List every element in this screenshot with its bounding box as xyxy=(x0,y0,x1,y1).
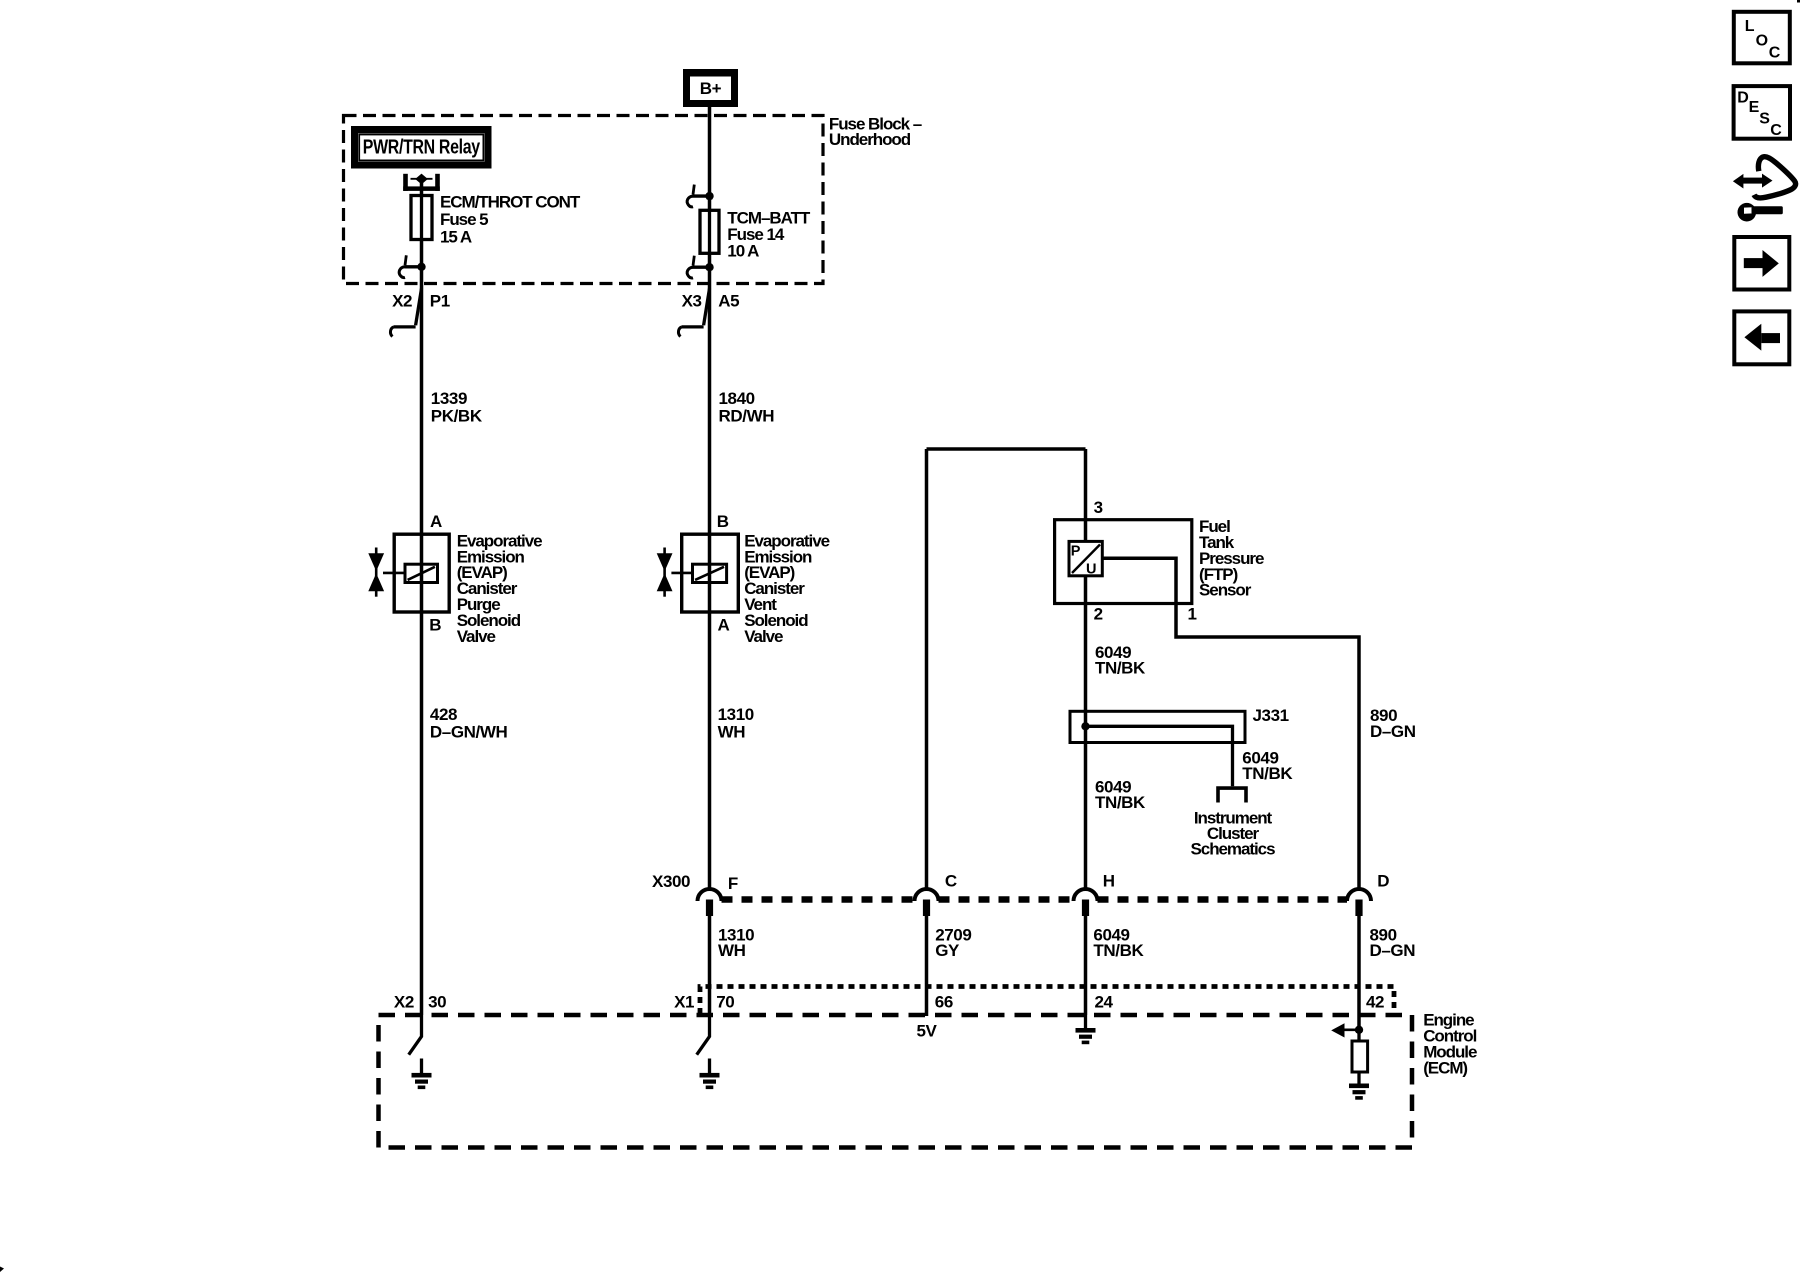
svg-text:D: D xyxy=(1377,872,1389,891)
nav icon back arrow box xyxy=(1734,311,1789,364)
svg-text:O: O xyxy=(1756,32,1768,49)
svg-text:PK/BK: PK/BK xyxy=(431,406,483,425)
wire: FTP pin 3 drop xyxy=(1084,449,1088,541)
resistor inside ECM at pin 42 xyxy=(1357,1030,1360,1041)
fuse F14 TCM-BATT 10A xyxy=(700,210,719,253)
wire: Fuse 5 through EVAP purge solenoid to ECM pin 30 xyxy=(420,240,424,1016)
svg-text:1310: 1310 xyxy=(718,705,754,724)
svg-text:D–GN/WH: D–GN/WH xyxy=(430,722,508,741)
solenoid: EVAP canister purge valve xyxy=(394,534,449,612)
svg-text:ECM/THROT CONT: ECM/THROT CONT xyxy=(440,192,581,211)
ECM pin 30 contact slant xyxy=(409,1015,422,1055)
ground at ECM pin 70 xyxy=(708,1059,711,1074)
wire: Fuse 14 through EVAP vent solenoid to X300 F xyxy=(708,253,712,889)
wire: 5V loop top xyxy=(927,447,1086,451)
svg-text:TN/BK: TN/BK xyxy=(1242,764,1293,783)
svg-text:A: A xyxy=(718,616,730,635)
page corner marks xyxy=(0,1267,4,1273)
svg-text:X300: X300 xyxy=(652,872,690,891)
off-page bracket to instrument cluster xyxy=(1218,788,1246,802)
svg-text:X2: X2 xyxy=(394,992,414,1011)
female connector above Fuse 14 xyxy=(705,192,713,200)
svg-text:H: H xyxy=(1103,872,1115,891)
svg-text:D: D xyxy=(1737,90,1748,107)
male connector half below X2 P1 xyxy=(416,289,422,326)
pressure transducer P/U symbol xyxy=(1069,541,1102,575)
nav icon: repair instructions (arrows + wrench) xyxy=(1741,178,1763,184)
fuse block underhood dashed box xyxy=(344,116,824,284)
svg-text:5V: 5V xyxy=(917,1021,938,1040)
svg-text:30: 30 xyxy=(428,992,446,1011)
ECM pin 70 contact slant xyxy=(697,1015,710,1055)
wire: FTP signal out pin 1 xyxy=(1102,558,1359,889)
X300 connector C xyxy=(915,889,939,901)
female connector below Fuse 5 xyxy=(417,263,425,271)
wire: 2709 GY vertical to X300 C xyxy=(925,449,929,890)
svg-text:WH: WH xyxy=(718,722,746,741)
svg-text:Valve: Valve xyxy=(457,627,496,646)
svg-text:70: 70 xyxy=(716,992,734,1011)
svg-text:Valve: Valve xyxy=(744,627,783,646)
female connector below Fuse 14 xyxy=(705,263,713,271)
wire: relay to Fuse 5 xyxy=(420,182,424,196)
svg-text:C: C xyxy=(945,872,957,891)
svg-text:1840: 1840 xyxy=(719,389,755,408)
ECM X1 connector dotted outline xyxy=(700,987,1394,1015)
svg-text:GY: GY xyxy=(935,941,960,960)
X300 in-line harness dashed line xyxy=(722,896,1348,903)
svg-text:RD/WH: RD/WH xyxy=(719,406,775,425)
svg-text:1: 1 xyxy=(1188,605,1197,624)
svg-text:Fuse 5: Fuse 5 xyxy=(440,210,488,229)
svg-text:3: 3 xyxy=(1094,498,1103,517)
svg-text:U: U xyxy=(1086,562,1096,578)
svg-text:TN/BK: TN/BK xyxy=(1095,658,1146,677)
splice pack J331 box xyxy=(1070,711,1245,742)
nav icon forward arrow box xyxy=(1734,237,1789,290)
svg-text:Underhood: Underhood xyxy=(829,130,911,149)
svg-text:A: A xyxy=(430,512,442,531)
ground at ECM pin 42 xyxy=(1349,1084,1369,1089)
svg-text:F: F xyxy=(728,874,738,893)
svg-text:B: B xyxy=(717,512,729,531)
svg-text:1339: 1339 xyxy=(431,389,467,408)
male connector half below X3 A5 xyxy=(704,289,710,326)
wire: X300 C to ECM 66 xyxy=(925,914,929,1016)
relay PWR/TRN Relay label box xyxy=(351,126,492,169)
wire: X300 H to ECM 24 xyxy=(1084,914,1088,1015)
wire: X300 D to ECM 42 xyxy=(1357,914,1361,1030)
battery feed B+ box xyxy=(683,69,738,107)
svg-text:S: S xyxy=(1759,111,1770,128)
svg-text:B: B xyxy=(429,616,441,635)
splice J331 tap line xyxy=(1081,722,1089,730)
svg-text:P: P xyxy=(1071,544,1081,560)
svg-text:D–GN: D–GN xyxy=(1370,941,1416,960)
svg-text:B+: B+ xyxy=(700,79,722,98)
engine control module ECM dashed box xyxy=(379,1015,1413,1148)
svg-text:C: C xyxy=(1769,45,1781,62)
wire: B+ to Fuse 14 xyxy=(708,107,712,211)
svg-text:428: 428 xyxy=(430,705,457,724)
svg-text:X3: X3 xyxy=(682,291,702,310)
X300 connector F xyxy=(698,889,722,901)
svg-text:42: 42 xyxy=(1366,992,1384,1011)
FTP sensor box xyxy=(1055,520,1192,604)
svg-text:24: 24 xyxy=(1095,992,1114,1011)
relay contact bracket + diamond xyxy=(403,174,408,191)
X300 connector D xyxy=(1347,889,1371,901)
svg-text:D–GN: D–GN xyxy=(1370,722,1416,741)
wire: FTP pin 2 to J331 to X300 H xyxy=(1084,576,1088,890)
solenoid: EVAP canister vent valve xyxy=(682,534,739,612)
svg-text:WH: WH xyxy=(718,941,746,960)
ground at ECM pin 30 xyxy=(420,1059,423,1074)
svg-text:X2: X2 xyxy=(392,291,412,310)
svg-text:TN/BK: TN/BK xyxy=(1095,793,1146,812)
nav icon LOC box xyxy=(1734,12,1790,64)
svg-text:PWR/TRN Relay: PWR/TRN Relay xyxy=(363,137,481,159)
ground at ECM pin 24 xyxy=(1084,1015,1087,1028)
svg-text:J331: J331 xyxy=(1253,706,1289,725)
svg-text:10 A: 10 A xyxy=(727,242,759,261)
fuse F5 ECM/THROT CONT 15A xyxy=(411,196,432,240)
svg-text:66: 66 xyxy=(935,992,953,1011)
X300 connector H xyxy=(1074,889,1098,901)
wire: X300 F to ECM 70 xyxy=(708,914,712,1015)
svg-text:C: C xyxy=(1770,122,1782,139)
svg-text:P1: P1 xyxy=(430,291,450,310)
internal signal arrow at ECM pin 42 xyxy=(1355,1026,1363,1034)
svg-text:A5: A5 xyxy=(718,291,739,310)
svg-text:(ECM): (ECM) xyxy=(1423,1059,1467,1078)
svg-text:2: 2 xyxy=(1094,605,1103,624)
svg-text:X1: X1 xyxy=(674,992,694,1011)
svg-text:L: L xyxy=(1745,18,1755,35)
svg-text:Schematics: Schematics xyxy=(1191,840,1276,859)
nav icon DESC box xyxy=(1734,86,1790,139)
svg-text:15 A: 15 A xyxy=(440,227,472,246)
svg-text:TN/BK: TN/BK xyxy=(1093,941,1144,960)
svg-text:E: E xyxy=(1749,99,1760,116)
svg-text:Sensor: Sensor xyxy=(1199,581,1252,600)
